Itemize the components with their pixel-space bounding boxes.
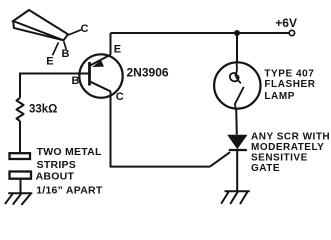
node junction dot <box>234 30 240 36</box>
wire +6V rail <box>111 32 290 34</box>
svg-text:B: B <box>62 48 70 60</box>
wire base <box>20 74 89 98</box>
wire rail to lamp <box>236 33 238 63</box>
svg-text:+6V: +6V <box>275 16 297 30</box>
wire emitter to rail <box>110 33 112 55</box>
lead line C on illustration <box>68 30 81 35</box>
lamp (TYPE 407 flasher) <box>214 62 260 108</box>
label TYPE 407 FLASHER LAMP <box>264 69 315 102</box>
svg-text:E: E <box>46 56 53 68</box>
lead line E on illustration <box>53 42 59 55</box>
svg-text:TYPE 407: TYPE 407 <box>264 69 314 80</box>
svg-text:E: E <box>114 44 121 56</box>
svg-text:TWO METAL: TWO METAL <box>37 146 102 158</box>
svg-text:ANY SCR WITH: ANY SCR WITH <box>251 131 330 142</box>
resistor 33k <box>17 98 24 121</box>
label TWO METAL STRIPS ABOUT 1/16 APART <box>36 146 103 196</box>
wire resistor to strip <box>19 121 21 152</box>
SCR <box>227 135 247 192</box>
svg-text:LAMP: LAMP <box>264 91 295 102</box>
ground (SCR) <box>222 191 249 203</box>
svg-text:SENSITIVE: SENSITIVE <box>251 153 308 164</box>
svg-text:C: C <box>81 23 89 35</box>
metal strip 1 <box>10 153 31 159</box>
wire lamp to SCR <box>235 109 238 135</box>
label ANY SCR WITH MODERATELY SENSITIVE GATE <box>251 131 330 174</box>
svg-text:2N3906: 2N3906 <box>127 66 169 80</box>
svg-text:1/16” APART: 1/16” APART <box>36 185 103 197</box>
lead line B on illustration <box>64 42 66 50</box>
wire gate diagonal <box>210 152 230 166</box>
svg-text:B: B <box>72 75 80 87</box>
wire collector to gate <box>111 92 211 167</box>
svg-text:STRIPS: STRIPS <box>37 159 76 171</box>
svg-text:ABOUT: ABOUT <box>36 171 75 183</box>
metal strips 3D illustration <box>13 10 68 40</box>
svg-text:FLASHER: FLASHER <box>264 79 315 90</box>
svg-text:GATE: GATE <box>251 163 280 174</box>
transistor Q1 2N3906 <box>79 54 122 97</box>
wire strip to ground <box>20 179 22 193</box>
svg-text:MODERATELY: MODERATELY <box>251 142 324 153</box>
ground (left) <box>5 193 31 204</box>
svg-text:33kΩ: 33kΩ <box>29 104 57 116</box>
+6V terminal <box>289 30 294 35</box>
svg-text:C: C <box>116 91 124 103</box>
metal strip 2 <box>10 172 32 179</box>
